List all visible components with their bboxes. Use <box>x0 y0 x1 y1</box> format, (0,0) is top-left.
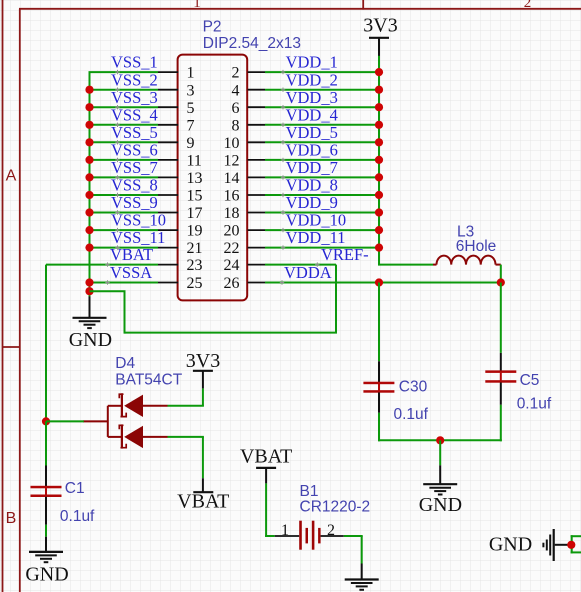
svg-text:20: 20 <box>224 223 240 240</box>
P2 pin number 18 <box>224 205 240 222</box>
P2 pin number 16 <box>224 188 240 205</box>
wire pin 16 to VDD bus <box>265 194 380 196</box>
junction ground rail <box>436 436 444 444</box>
wire VSS bus to pin 15 <box>89 194 159 196</box>
svg-text:2: 2 <box>524 0 532 11</box>
P2 pin number 8 <box>232 117 240 134</box>
P2 pin number 23 <box>187 257 203 274</box>
P2 pin number 12 <box>224 153 240 170</box>
svg-text:VSS_5: VSS_5 <box>111 123 158 142</box>
P2 pin number 3 <box>187 82 195 99</box>
battery B1 designator <box>300 483 319 500</box>
P2 pin number 4 <box>232 82 240 99</box>
net label VSS_11 <box>111 228 165 250</box>
P2 pin 9 stub <box>158 141 178 143</box>
wire D4 bottom anode to VBAT port <box>168 437 204 478</box>
P2 pin 16 stub <box>248 194 265 196</box>
P2 pin 20 stub <box>248 229 265 231</box>
wire pin 2 to VDD bus <box>265 71 380 73</box>
svg-text:14: 14 <box>224 170 240 187</box>
P2 pin 10 stub <box>248 141 265 143</box>
svg-text:VDD_6: VDD_6 <box>286 141 338 160</box>
svg-text:21: 21 <box>187 240 203 257</box>
P2 pin 8 stub <box>248 124 265 126</box>
P2 pin number 17 <box>187 205 203 222</box>
svg-text:VDD_1: VDD_1 <box>286 53 338 72</box>
ground GND VSS bus label <box>69 329 112 351</box>
capacitor C30 value 0.1uf <box>394 406 429 423</box>
P2 pin 6 stub <box>248 106 265 108</box>
P2 pin number 21 <box>187 240 203 257</box>
svg-text:VSS_10: VSS_10 <box>111 211 166 230</box>
junction VDDA at C5 <box>497 278 505 286</box>
P2 pin number 7 <box>187 117 195 134</box>
svg-text:7: 7 <box>187 117 195 134</box>
diode D4 common cathode bracket <box>83 406 108 437</box>
P2 pin number 22 <box>224 240 240 257</box>
junction VDD bus row 1 <box>375 68 383 76</box>
net label VDD_4 <box>281 105 338 127</box>
frame row label A <box>6 168 17 185</box>
svg-text:VSS_4: VSS_4 <box>111 105 158 124</box>
svg-text:1: 1 <box>193 0 201 11</box>
ground GND VSS bus symbol <box>73 296 107 328</box>
junction right GND <box>567 541 575 549</box>
net label VSSA <box>105 263 152 285</box>
P2 pin 21 stub <box>158 247 178 249</box>
wire VBAT rail to C1 <box>45 421 47 465</box>
svg-text:VSS_3: VSS_3 <box>111 88 158 107</box>
capacitor C5 <box>485 353 516 405</box>
wire VSS bus to pin 1 <box>89 71 159 73</box>
wire pin 18 to VDD bus <box>265 212 380 214</box>
svg-text:VDD_3: VDD_3 <box>286 88 338 107</box>
svg-text:23: 23 <box>187 257 203 274</box>
wire ground rail to GND <box>439 440 441 465</box>
net label VSS_7 <box>111 158 158 180</box>
wire 3V3 VDD bus vertical <box>378 55 380 264</box>
ground GND C1 symbol <box>29 537 63 563</box>
junction VSS bus row 9 <box>85 208 93 216</box>
wire VDDA bus to C30 <box>378 283 380 362</box>
svg-text:VREF-: VREF- <box>321 245 369 264</box>
junction VSS bus row 6 <box>85 156 93 164</box>
wire VBAT port to B1 pin 1 <box>265 483 275 537</box>
power port 3V3 top label <box>363 15 397 37</box>
wire pin 20 to VDD bus <box>265 229 380 231</box>
battery B1 pin 2 number <box>327 522 335 539</box>
net label VSS_8 <box>111 176 158 198</box>
svg-text:1: 1 <box>187 65 195 82</box>
net label VSS_1 <box>111 53 158 75</box>
svg-text:11: 11 <box>187 153 202 170</box>
net label VDD_7 <box>281 158 338 180</box>
wire net VREF- from pin 24 <box>265 264 336 266</box>
P2 pin number 24 <box>224 257 240 274</box>
P2 pin number 2 <box>232 65 240 82</box>
junction VDD bus row 11 <box>375 244 383 252</box>
svg-text:15: 15 <box>187 188 203 205</box>
junction VDD bus row 7 <box>375 173 383 181</box>
power port VBAT at B1 label <box>240 445 292 467</box>
svg-text:25: 25 <box>187 275 203 292</box>
inductor L3 designator <box>457 223 474 240</box>
svg-text:BAT54CT: BAT54CT <box>115 371 182 388</box>
svg-text:3: 3 <box>187 82 195 99</box>
junction VBAT rail / D4 <box>42 417 50 425</box>
svg-text:18: 18 <box>224 205 240 222</box>
junction VSS bus VREF return <box>85 287 93 295</box>
junction VSS bus row 2 <box>85 86 93 94</box>
ground GND right symbol rotated <box>543 529 567 561</box>
net label VSS_2 <box>111 70 158 92</box>
diode D4 part BAT54CT <box>115 371 182 388</box>
svg-text:VBAT: VBAT <box>240 445 292 467</box>
svg-text:3V3: 3V3 <box>363 15 397 37</box>
net label VSS_5 <box>111 123 158 145</box>
P2 pin 3 stub <box>158 89 178 91</box>
wire VDD bus to L3 <box>378 264 433 266</box>
power port VBAT at D4 label <box>177 491 229 513</box>
net label VDD_11 <box>281 228 346 250</box>
P2 pin 24 stub <box>248 264 265 266</box>
wire C1 to GND <box>45 525 47 537</box>
net label VDD_5 <box>281 123 338 145</box>
power port 3V3 top bar symbol <box>369 38 389 56</box>
wire C30 to ground rail <box>378 413 380 442</box>
junction VSS bus row 11 <box>85 244 93 252</box>
svg-text:VSS_8: VSS_8 <box>111 176 158 195</box>
P2 pin number 6 <box>232 100 240 117</box>
frame column label 1 <box>193 0 201 11</box>
svg-text:A: A <box>6 168 17 185</box>
wire VSS bus to pin 11 <box>89 159 159 161</box>
ground GND center label <box>419 494 462 516</box>
junction VDD bus row 8 <box>375 191 383 199</box>
net label VBAT <box>105 245 153 267</box>
net label VDD_2 <box>281 70 338 92</box>
svg-text:C30: C30 <box>399 378 428 395</box>
svg-text:VDD_7: VDD_7 <box>286 158 338 177</box>
svg-text:10: 10 <box>224 135 240 152</box>
P2 pin number 26 <box>224 275 240 292</box>
P2 pin 18 stub <box>248 212 265 214</box>
svg-text:13: 13 <box>187 170 203 187</box>
capacitor C30 <box>363 361 394 413</box>
svg-text:4: 4 <box>232 82 240 99</box>
wire net VDDA from pin 26 to C5 <box>265 282 501 284</box>
wire L3 output down <box>500 265 502 283</box>
wire ground rail C30-C5 <box>378 439 502 441</box>
ground GND center symbol <box>423 465 457 494</box>
capacitor C5 value 0.1uf <box>517 396 552 413</box>
junction VSS bus row 8 <box>85 191 93 199</box>
svg-text:VSS_7: VSS_7 <box>111 158 158 177</box>
svg-text:VDDA: VDDA <box>284 263 332 282</box>
connector P2 comment DIP2.54_2x13 <box>203 35 301 52</box>
svg-text:9: 9 <box>187 135 195 152</box>
wire VDDA to C5 <box>500 283 502 353</box>
svg-text:0.1uf: 0.1uf <box>60 508 95 525</box>
power port 3V3 at D4 <box>193 370 213 388</box>
svg-text:B1: B1 <box>300 483 319 500</box>
capacitor C30 designator <box>399 378 428 395</box>
P2 pin number 25 <box>187 275 203 292</box>
net label VDD_3 <box>281 88 338 110</box>
diode D4 designator <box>115 355 135 372</box>
junction VDD bus row 4 <box>375 121 383 129</box>
junction VDD bus row 5 <box>375 138 383 146</box>
wire C5 to ground rail <box>500 405 502 442</box>
svg-text:VBAT: VBAT <box>177 491 229 513</box>
diode D4 top schottky <box>108 393 168 417</box>
capacitor C1 designator <box>65 480 85 497</box>
svg-text:GND: GND <box>419 494 462 516</box>
svg-text:16: 16 <box>224 188 240 205</box>
wire B1 pin 2 to GND <box>344 536 363 564</box>
power port VBAT at D4 <box>193 478 213 492</box>
P2 pin number 1 <box>187 65 195 82</box>
wire pin 10 to VDD bus <box>265 141 380 143</box>
svg-text:12: 12 <box>224 153 240 170</box>
wire VSS bus to pin 17 <box>89 212 159 214</box>
capacitor C5 designator <box>520 372 540 389</box>
connector U-P2 designator <box>203 19 222 36</box>
svg-text:VDD_4: VDD_4 <box>286 105 338 124</box>
svg-text:24: 24 <box>224 257 240 274</box>
wire VSS bus to pin 7 <box>89 124 159 126</box>
net label VSS_10 <box>111 211 166 233</box>
P2 pin 1 stub <box>158 71 178 73</box>
svg-text:3V3: 3V3 <box>186 350 220 372</box>
svg-text:P2: P2 <box>203 19 222 36</box>
junction VSS bus row 10 <box>85 226 93 234</box>
junction VDD bus row 3 <box>375 103 383 111</box>
P2 pin 25 stub <box>158 282 178 284</box>
net label VDD_8 <box>281 176 338 198</box>
svg-text:17: 17 <box>187 205 203 222</box>
svg-text:19: 19 <box>187 223 203 240</box>
diode D4 bottom schottky <box>108 424 168 448</box>
junction VSS bus row 7 <box>85 173 93 181</box>
net label VDD_10 <box>281 211 346 233</box>
svg-text:B: B <box>6 510 17 527</box>
P2 pin 13 stub <box>158 176 178 178</box>
junction VDDA at bus <box>375 278 383 286</box>
P2 pin 5 stub <box>158 106 178 108</box>
svg-text:VDD_9: VDD_9 <box>286 193 338 212</box>
svg-text:6Hole: 6Hole <box>456 238 497 255</box>
P2 pin number 19 <box>187 223 203 240</box>
net label VSS_4 <box>111 105 158 127</box>
svg-text:VSS_9: VSS_9 <box>111 193 158 212</box>
svg-text:26: 26 <box>224 275 240 292</box>
svg-text:CR1220-2: CR1220-2 <box>300 499 371 516</box>
junction VDD bus row 2 <box>375 86 383 94</box>
frame row label B <box>6 510 17 527</box>
frame column label 2 <box>524 0 532 11</box>
junction VSS bus row 4 <box>85 121 93 129</box>
wire VSS bus to pin 19 <box>89 229 159 231</box>
svg-text:6: 6 <box>232 100 240 117</box>
power port VBAT at B1 <box>256 468 276 484</box>
inductor L3 value 6Hole <box>456 238 497 255</box>
P2 pin number 10 <box>224 135 240 152</box>
svg-text:GND: GND <box>69 329 112 351</box>
svg-text:VSS_2: VSS_2 <box>111 70 158 89</box>
P2 pin 23 stub <box>158 264 178 266</box>
svg-text:VDD_5: VDD_5 <box>286 123 338 142</box>
junction VDD bus row 6 <box>375 156 383 164</box>
P2 pin 12 stub <box>248 159 265 161</box>
wire pin 22 to VDD bus <box>265 247 380 249</box>
wire VSS bus to pin 5 <box>89 106 159 108</box>
net label VSS_6 <box>111 141 158 163</box>
wire D4 common to VBAT rail <box>46 420 84 422</box>
net label VSS_9 <box>111 193 158 215</box>
svg-text:0.1uf: 0.1uf <box>517 396 552 413</box>
wire right edge stub <box>571 535 581 553</box>
svg-text:C1: C1 <box>65 480 85 497</box>
net label VDD_1 <box>281 53 338 75</box>
junction VSS bus VSSA row <box>85 278 93 286</box>
P2 pin 19 stub <box>158 229 178 231</box>
wire pin 12 to VDD bus <box>265 159 380 161</box>
P2 pin number 13 <box>187 170 203 187</box>
P2 pin number 9 <box>187 135 195 152</box>
net label VDD_6 <box>281 141 338 163</box>
P2 pin number 11 <box>187 153 202 170</box>
wire net VBAT from pin 23 to left rail <box>46 264 158 266</box>
P2 pin 15 stub <box>158 194 178 196</box>
svg-text:0.1uf: 0.1uf <box>394 406 429 423</box>
svg-text:DIP2.54_2x13: DIP2.54_2x13 <box>203 35 301 52</box>
P2 pin number 15 <box>187 188 203 205</box>
capacitor C1 <box>31 466 62 525</box>
wire net VBAT left rail vertical <box>45 265 47 422</box>
svg-text:VDD_10: VDD_10 <box>286 211 347 230</box>
capacitor C1 value 0.1uf <box>60 508 95 525</box>
P2 pin 11 stub <box>158 159 178 161</box>
wire VREF- left riser <box>124 291 126 333</box>
P2 pin 17 stub <box>158 212 178 214</box>
ground GND right label <box>489 534 532 556</box>
battery B1 part CR1220-2 <box>300 499 371 516</box>
battery B1 <box>275 521 344 550</box>
battery B1 pin 1 number <box>281 522 289 539</box>
wire VSS bus to pin 9 <box>89 141 159 143</box>
P2 pin 26 stub <box>248 282 265 284</box>
P2 pin number 5 <box>187 100 195 117</box>
svg-text:2: 2 <box>232 65 240 82</box>
wire pin 8 to VDD bus <box>265 124 380 126</box>
svg-text:VBAT: VBAT <box>110 245 153 264</box>
svg-text:5: 5 <box>187 100 195 117</box>
svg-text:VSSA: VSSA <box>110 263 152 282</box>
svg-text:C5: C5 <box>520 372 540 389</box>
inductor L3 <box>433 256 501 265</box>
junction VSS bus row 3 <box>85 103 93 111</box>
wire VSS left bus vertical <box>89 72 91 297</box>
svg-text:GND: GND <box>489 534 532 556</box>
wire VSS bus to pin 25 <box>89 282 159 284</box>
wire D4 top anode to 3V3 <box>168 388 204 405</box>
P2 pin number 20 <box>224 223 240 240</box>
net label VDDA <box>280 263 332 285</box>
ground GND B1 symbol <box>345 564 379 590</box>
P2 pin number 14 <box>224 170 240 187</box>
svg-text:VSS_1: VSS_1 <box>111 53 158 72</box>
P2 pin 22 stub <box>248 247 265 249</box>
wire VREF- horizontal return <box>125 332 338 334</box>
wire VREF- vertical drop <box>335 265 337 333</box>
power port 3V3 at D4 label <box>186 350 220 372</box>
P2 pin 14 stub <box>248 176 265 178</box>
net label VSS_3 <box>111 88 158 110</box>
wire pin 4 to VDD bus <box>265 89 380 91</box>
svg-text:D4: D4 <box>115 355 135 372</box>
junction VDD bus row 10 <box>375 226 383 234</box>
wire pin 6 to VDD bus <box>265 106 380 108</box>
net label VDD_9 <box>281 193 338 215</box>
P2 pin 2 stub <box>248 71 265 73</box>
svg-text:22: 22 <box>224 240 240 257</box>
svg-text:8: 8 <box>232 117 240 134</box>
wire VSS bus to pin 13 <box>89 176 159 178</box>
ground GND C1 label <box>25 564 68 586</box>
P2 pin 7 stub <box>158 124 178 126</box>
net label VREF- <box>315 245 369 267</box>
svg-text:VDD_8: VDD_8 <box>286 176 338 195</box>
svg-text:VDD_2: VDD_2 <box>286 70 338 89</box>
wire pin 14 to VDD bus <box>265 176 380 178</box>
wire VSS bus to pin 21 <box>89 247 159 249</box>
wire VSS bus to pin 3 <box>89 89 159 91</box>
wire VREF- to VSS bus <box>90 290 126 292</box>
svg-text:GND: GND <box>25 564 68 586</box>
junction VSS bus row 5 <box>85 138 93 146</box>
svg-text:VSS_6: VSS_6 <box>111 141 158 160</box>
connector P2 body <box>178 55 248 301</box>
P2 pin 4 stub <box>248 89 265 91</box>
junction VDD bus row 9 <box>375 208 383 216</box>
